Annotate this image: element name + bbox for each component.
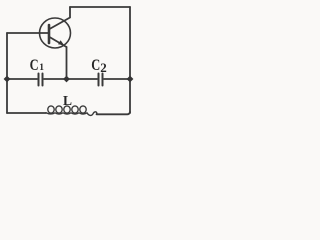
- wire: C1 to emitter node: [44, 78, 67, 80]
- svg-text:1: 1: [39, 63, 44, 73]
- capacitor C2 plates: [99, 74, 103, 86]
- inductor L coil loops: [48, 106, 54, 113]
- transistor Q1 circle: [40, 18, 71, 48]
- inductor L coil: [46, 112, 98, 116]
- transistor Q1 emitter lead: [50, 37, 67, 47]
- svg-text:C: C: [91, 57, 100, 74]
- junction dot emitter node: [63, 76, 70, 83]
- wire: mid rail left (left rail to C1): [7, 78, 37, 80]
- svg-text:L: L: [63, 93, 72, 108]
- svg-text:2: 2: [100, 60, 107, 75]
- wire: right rail: [129, 7, 131, 113]
- wire: emitter node to C2: [67, 78, 98, 80]
- wire: top rail (collector to top-right corner): [70, 6, 130, 8]
- wire: C2 to right rail: [104, 78, 130, 80]
- wire: bottom rail left segment: [7, 112, 46, 114]
- wire: base lead from left rail to transistor: [7, 32, 49, 34]
- junction dot left rail / mid rail: [4, 76, 11, 83]
- svg-text:C: C: [30, 57, 39, 74]
- wire: bottom rail right segment from coil to right rail: [97, 112, 131, 114]
- wire: emitter down to mid node: [66, 47, 68, 79]
- wire: left rail: [6, 33, 8, 113]
- capacitor C1 plates: [39, 74, 43, 86]
- transistor Q1 emitter arrow: [58, 40, 64, 45]
- transistor Q1 collector lead: [50, 7, 71, 29]
- junction dot right rail / mid rail: [127, 76, 134, 83]
- transistor Q1 base bar: [48, 25, 51, 43]
